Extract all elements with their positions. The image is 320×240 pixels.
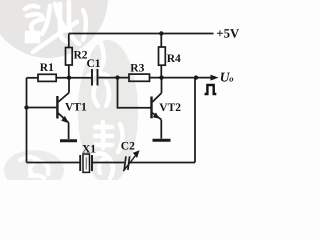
svg-text:VT1: VT1: [65, 102, 87, 114]
svg-text:C2: C2: [121, 141, 135, 153]
svg-text:o: o: [229, 74, 233, 84]
svg-text:R4: R4: [167, 53, 181, 65]
svg-text:VT2: VT2: [159, 102, 181, 114]
svg-text:R1: R1: [40, 62, 54, 74]
svg-text:+5V: +5V: [216, 27, 240, 41]
svg-text:R3: R3: [130, 62, 144, 74]
svg-text:X1: X1: [82, 144, 96, 156]
svg-text:C1: C1: [87, 58, 101, 70]
